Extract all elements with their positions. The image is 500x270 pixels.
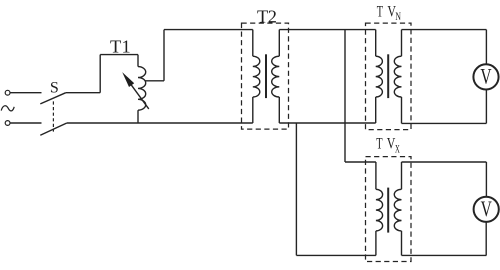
svg-text:1: 1: [122, 37, 131, 57]
TVX secondary top lead: [401, 162, 403, 189]
TVN primary bottom lead: [375, 97, 377, 123]
svg-text:T: T: [376, 135, 383, 152]
svg-text:X: X: [395, 144, 400, 156]
T1 coil bottom lead: [137, 110, 139, 123]
tap riser: [163, 30, 165, 81]
TVN primary winding: [376, 56, 383, 97]
switch S bottom blade: [40, 123, 67, 135]
TVX core: [387, 188, 389, 233]
voltmeter V1: [473, 64, 498, 89]
autotransformer T1 coil: [138, 67, 146, 111]
T2 secondary bottom lead: [278, 97, 280, 123]
wire top terminal to switch: [10, 92, 41, 94]
T2 primary top lead: [252, 30, 254, 57]
voltmeter V2 bottom wire: [402, 254, 487, 256]
T1 top wire: [100, 54, 138, 56]
TVX feed riser from top wire: [344, 30, 346, 162]
T1 coil top lead: [137, 55, 139, 67]
TVN secondary bottom lead: [401, 97, 403, 123]
svg-text:T: T: [110, 37, 121, 57]
TVX return branch horizontal: [296, 254, 376, 256]
T2 primary winding: [253, 56, 260, 97]
V2 right riser bottom: [485, 222, 487, 255]
AC symbol ~: [1, 106, 14, 111]
wire switch top to T1: [66, 92, 100, 94]
T2 secondary top lead: [278, 30, 280, 57]
T1 wiper arrow: [131, 85, 149, 109]
AC source terminal bottom: [5, 121, 10, 126]
rail T2 secondary to TVN primary: [279, 122, 375, 124]
T2 secondary winding: [272, 56, 280, 97]
voltmeter V1 top wire: [402, 29, 487, 31]
voltmeter V2 top wire: [402, 161, 487, 163]
svg-text:T: T: [257, 6, 268, 26]
TVX primary bottom lead: [375, 231, 377, 256]
switch S top blade: [40, 93, 66, 104]
V2 right riser top: [485, 162, 487, 197]
transformer TVN dashed box: [366, 23, 412, 130]
V1 right riser bottom: [485, 90, 487, 124]
top wire T2 secondary to TVN primary: [279, 29, 375, 31]
TVN core: [387, 54, 389, 98]
T1 tap wire: [145, 80, 164, 82]
transformer TVX dashed box: [366, 157, 412, 262]
TVX secondary winding: [394, 189, 401, 231]
bottom rail switch to T2 primary: [67, 122, 253, 124]
TVX feed horizontal: [345, 161, 376, 163]
TVX return branch vertical: [295, 123, 297, 255]
TVN secondary winding: [394, 56, 401, 97]
svg-text:V: V: [480, 64, 491, 89]
voltmeter V2: [474, 197, 499, 222]
T2 primary bottom lead: [252, 97, 254, 123]
T1 left riser: [99, 55, 101, 93]
TVN primary top lead: [375, 30, 377, 57]
svg-text:T: T: [377, 4, 384, 21]
V1 right riser top: [485, 30, 487, 65]
transformer T2 dashed box: [242, 23, 289, 129]
TVX primary winding: [376, 189, 383, 231]
AC source terminal top: [5, 90, 10, 95]
TVX primary top lead: [375, 162, 377, 189]
T2 core: [265, 54, 267, 98]
top wire tap to T2: [164, 29, 253, 31]
svg-text:S: S: [50, 79, 59, 96]
switch S dashed link: [52, 101, 54, 131]
voltmeter V1 bottom wire: [402, 122, 487, 124]
svg-text:N: N: [395, 11, 401, 23]
TVX secondary bottom lead: [401, 231, 403, 256]
TVN secondary top lead: [401, 30, 403, 57]
svg-text:V: V: [481, 196, 492, 221]
svg-text:2: 2: [268, 6, 277, 26]
wire bottom terminal to switch: [10, 122, 41, 124]
